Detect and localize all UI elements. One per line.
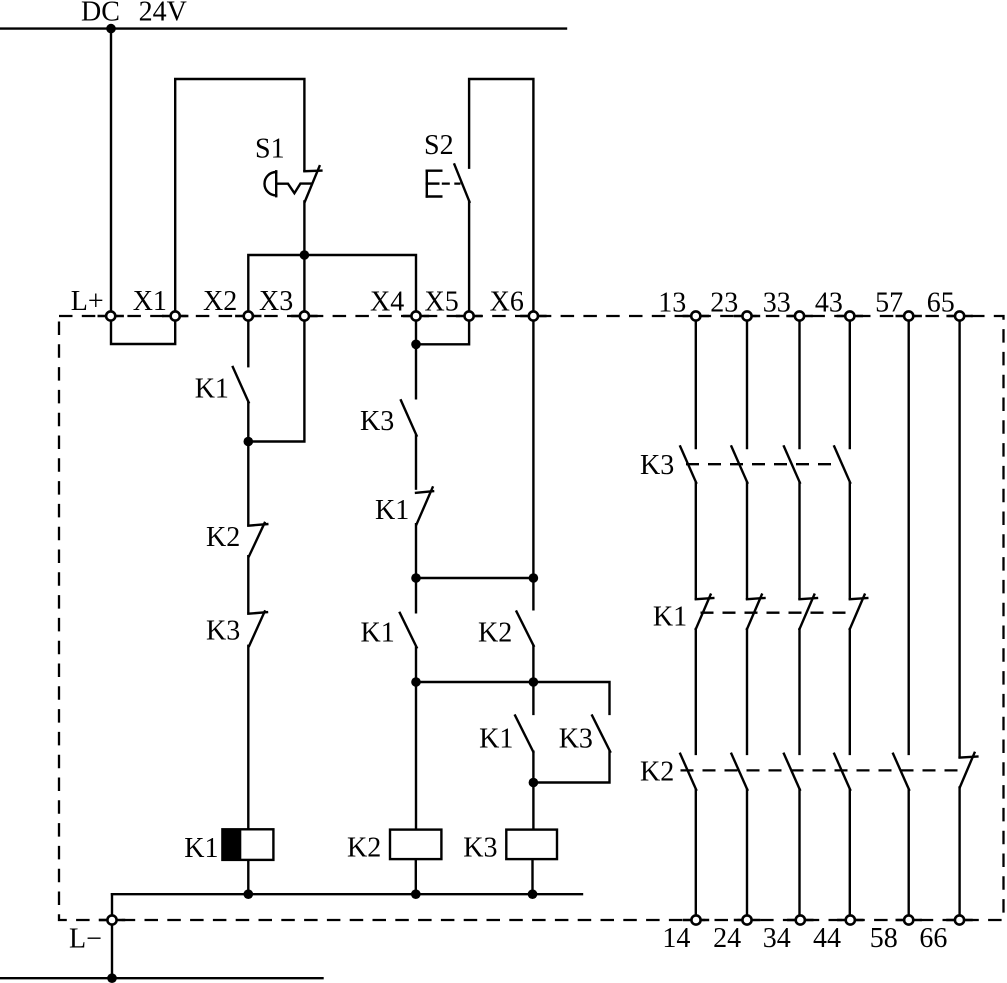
svg-text:24V: 24V [139, 0, 187, 28]
svg-text:13: 13 [658, 288, 686, 319]
svg-text:K3: K3 [640, 450, 674, 481]
svg-text:X2: X2 [203, 286, 237, 317]
svg-text:S2: S2 [424, 130, 454, 161]
svg-text:58: 58 [870, 923, 898, 954]
svg-text:L−: L− [69, 924, 102, 955]
svg-text:K2: K2 [206, 522, 240, 553]
svg-text:K1: K1 [375, 495, 409, 526]
svg-text:K1: K1 [195, 374, 229, 405]
svg-text:S1: S1 [255, 134, 285, 165]
svg-text:24: 24 [713, 923, 741, 954]
svg-text:66: 66 [919, 923, 947, 954]
svg-text:57: 57 [875, 288, 903, 319]
svg-text:X5: X5 [425, 287, 459, 318]
svg-text:K3: K3 [360, 406, 394, 437]
svg-text:33: 33 [763, 288, 791, 319]
svg-text:DC: DC [81, 0, 120, 28]
svg-text:X1: X1 [133, 286, 167, 317]
svg-text:23: 23 [710, 288, 738, 319]
svg-text:X6: X6 [490, 287, 524, 318]
svg-text:K1: K1 [479, 724, 513, 755]
svg-text:34: 34 [763, 923, 791, 954]
svg-text:X3: X3 [259, 286, 293, 317]
svg-text:K3: K3 [463, 833, 497, 864]
svg-text:X4: X4 [370, 287, 404, 318]
svg-text:K1: K1 [184, 833, 218, 864]
svg-text:43: 43 [815, 288, 843, 319]
svg-text:14: 14 [662, 923, 690, 954]
svg-text:K1: K1 [361, 618, 395, 649]
svg-text:K2: K2 [478, 618, 512, 649]
svg-text:L+: L+ [71, 286, 104, 317]
svg-text:44: 44 [813, 923, 841, 954]
svg-text:K1: K1 [653, 602, 687, 633]
svg-text:K3: K3 [206, 616, 240, 647]
svg-text:65: 65 [927, 288, 955, 319]
svg-text:K2: K2 [347, 833, 381, 864]
svg-text:K2: K2 [640, 757, 674, 788]
svg-text:K3: K3 [559, 724, 593, 755]
